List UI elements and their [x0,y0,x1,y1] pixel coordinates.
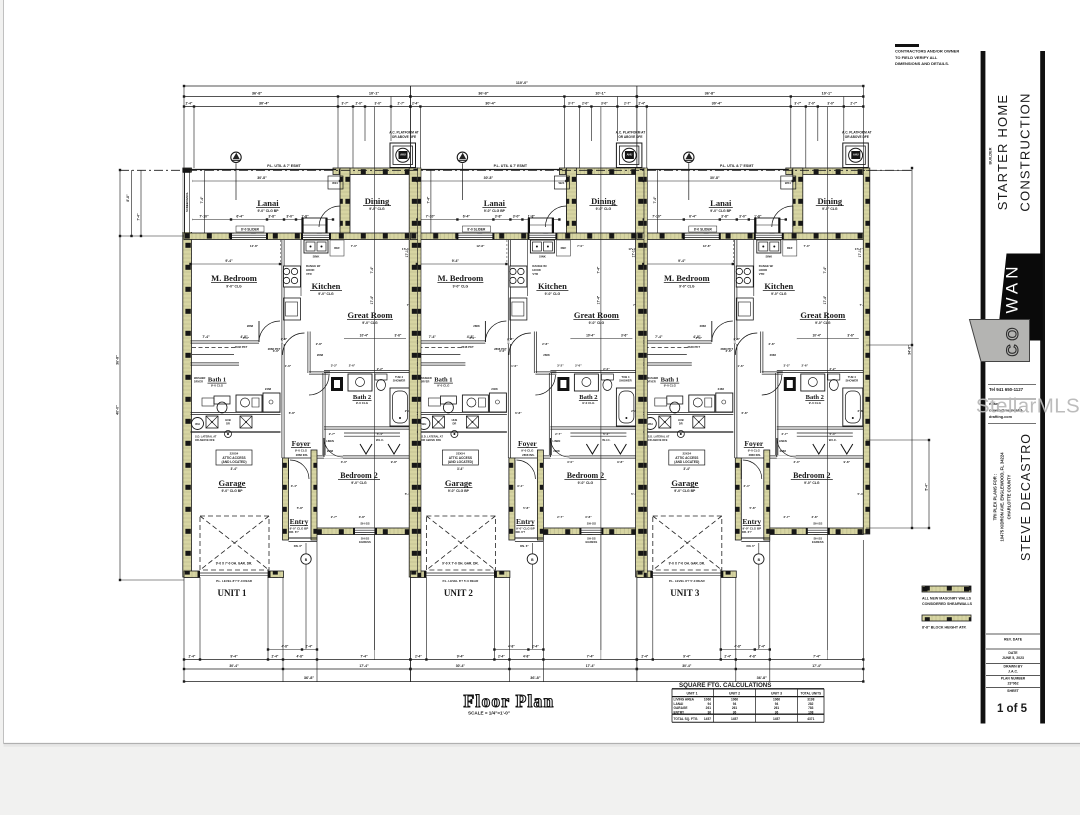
svg-text:Floor Plan: Floor Plan [464,691,555,711]
svg-text:UNIT 2: UNIT 2 [444,588,474,598]
svg-text:40'-0": 40'-0" [116,405,120,415]
svg-text:CONSIDERED SHEARWALLS: CONSIDERED SHEARWALLS [922,602,973,606]
svg-text:CONTRACTORS AND/OR OWNER: CONTRACTORS AND/OR OWNER [895,49,959,54]
svg-text:SCREEN ENCL: SCREEN ENCL [185,192,189,212]
svg-text:36: 36 [775,711,779,715]
svg-text:DATE: DATE [1008,651,1018,655]
svg-text:DIMENSIONS AND DETAILS.: DIMENSIONS AND DETAILS. [895,61,949,66]
svg-text:8'-8" BLOCK HEIGHT ATP.: 8'-8" BLOCK HEIGHT ATP. [922,626,966,630]
svg-text:DRAWN BY: DRAWN BY [1003,665,1023,669]
svg-text:23*062: 23*062 [1007,682,1018,686]
svg-text:JUNE 5, 2023: JUNE 5, 2023 [1002,656,1024,660]
svg-text:TRI PLEX PLANS FOR :: TRI PLEX PLANS FOR : [993,474,998,521]
svg-text:108: 108 [808,711,814,715]
svg-text:STARTER HOME: STARTER HOME [995,94,1010,210]
svg-text:10475 KIDRON AVE. ENGLEWOOD,: 10475 KIDRON AVE. ENGLEWOOD, FL 34224 [1000,452,1005,542]
svg-text:J.A.C.: J.A.C. [1008,670,1018,674]
svg-text:5'-4": 5'-4" [925,483,929,491]
svg-text:SHEET: SHEET [1007,689,1020,693]
svg-text:TOTAL UNITS: TOTAL UNITS [800,692,821,696]
svg-text:8'-8": 8'-8" [126,194,130,202]
svg-text:BUILDER: BUILDER [989,147,993,164]
svg-text:110'-0": 110'-0" [516,81,528,85]
svg-text:UNIT 3: UNIT 3 [670,588,700,598]
svg-text:1457: 1457 [731,717,738,721]
svg-text:36'-8": 36'-8" [116,355,120,365]
svg-text:ALL NEW MASONRY WALLS: ALL NEW MASONRY WALLS [922,597,972,601]
svg-text:36: 36 [707,711,711,715]
svg-text:SQUARE FTG. CALCULATIONS: SQUARE FTG. CALCULATIONS [679,682,771,689]
svg-text:PLAN NUMBER: PLAN NUMBER [1001,677,1026,681]
svg-text:CO: CO [1004,324,1022,357]
svg-text:CHARLOTTE COUNTY: CHARLOTTE COUNTY [1007,474,1012,519]
svg-text:TOTAL SQ. FTG.: TOTAL SQ. FTG. [674,717,699,721]
svg-text:UNIT 3: UNIT 3 [771,692,782,696]
svg-text:36: 36 [733,711,737,715]
svg-text:1 of 5: 1 of 5 [997,703,1028,715]
svg-text:ENTRY: ENTRY [674,711,686,715]
svg-text:UNIT 1: UNIT 1 [686,692,697,696]
svg-text:STEVE DECASTRO: STEVE DECASTRO [1019,433,1033,561]
svg-text:1457: 1457 [704,717,711,721]
svg-text:1457: 1457 [773,717,780,721]
svg-text:CONSTRUCTION: CONSTRUCTION [1018,92,1033,211]
svg-text:StellarMLS: StellarMLS [976,395,1080,418]
svg-text:SCALE = 1/4"=1'-0": SCALE = 1/4"=1'-0" [468,711,510,716]
svg-text:Tel 941 650-1127: Tel 941 650-1127 [989,387,1024,392]
svg-text:TO FIELD VERIFY ALL: TO FIELD VERIFY ALL [895,55,938,60]
svg-text:7'-4": 7'-4" [136,213,140,221]
svg-text:UNIT 2: UNIT 2 [729,692,740,696]
svg-text:WAN: WAN [1003,262,1022,313]
svg-text:4371: 4371 [807,717,814,721]
svg-text:34'-8": 34'-8" [908,345,912,355]
svg-text:REV. DATE: REV. DATE [1004,638,1023,642]
